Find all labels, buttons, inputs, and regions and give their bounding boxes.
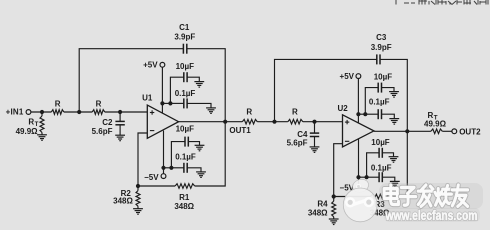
- svg-text:R: R: [96, 99, 102, 108]
- svg-text:10µF: 10µF: [371, 138, 390, 147]
- capacitor C2 5.6pF: [92, 112, 125, 136]
- svg-text:49.9Ω: 49.9Ω: [16, 127, 39, 136]
- decoupling capacitor 0.1uF lower U2: [367, 164, 395, 183]
- wire R to U2 +input: [303, 121, 343, 123]
- wire R to R: [64, 111, 92, 113]
- decoupling capacitor 10uF upper U2: [365, 73, 394, 115]
- wire R to U1 +input: [105, 111, 148, 113]
- svg-text:49.9Ω: 49.9Ω: [424, 120, 447, 129]
- -5V supply terminal U1: [144, 131, 166, 182]
- node feedback tap stage2: [272, 120, 276, 124]
- ground 10uF lower U1: [195, 145, 205, 151]
- capacitor C3 3.9pF: [371, 33, 392, 64]
- -5V supply terminal U2: [340, 139, 361, 192]
- node feedback tap stage1: [77, 110, 81, 114]
- decoupling capacitor 10uF lower U2: [367, 138, 394, 177]
- node at input junction: [40, 110, 44, 114]
- ground 10uF upper U1: [194, 82, 204, 88]
- svg-text:0.1µF: 0.1µF: [175, 89, 196, 98]
- svg-text:10µF: 10µF: [374, 73, 393, 82]
- termination resistor RT 49.9&#937;: [16, 112, 44, 136]
- svg-text:R4: R4: [317, 200, 328, 209]
- svg-text:U1: U1: [142, 93, 153, 102]
- svg-text:+IN1: +IN1: [6, 108, 24, 117]
- wire +IN1 to R: [31, 111, 51, 113]
- ground below C4: [310, 147, 320, 153]
- svg-text:U2: U2: [337, 104, 348, 113]
- decoupling capacitor 10uF lower U1: [171, 125, 199, 168]
- output terminal OUT2: [452, 127, 481, 136]
- op-amp U1: [142, 93, 179, 138]
- ground 10uF upper U2: [389, 92, 399, 98]
- node V- decoupling U2: [356, 175, 368, 179]
- clipped caption text top right: [396, 0, 490, 5]
- node OUT1: [223, 120, 251, 136]
- decoupling capacitor 10uF upper U1: [170, 62, 199, 103]
- resistor R (first): [51, 99, 64, 114]
- wire C1 to OUT1 rail: [187, 49, 225, 122]
- wire OUT1 rail to feedback R1: [195, 122, 226, 186]
- svg-text:R: R: [292, 107, 298, 116]
- svg-text:C2: C2: [102, 118, 113, 127]
- ground below RT: [37, 135, 47, 141]
- svg-text:348Ω: 348Ω: [308, 209, 328, 218]
- wire OUT2 rail to feedback R3: [390, 131, 407, 196]
- svg-text:0.1µF: 0.1µF: [175, 152, 196, 161]
- wire R to R stage2: [257, 121, 288, 123]
- output resistor RT 49.9&#937;: [424, 111, 452, 134]
- node C4 tap: [312, 120, 316, 124]
- decoupling capacitor 0.1uF upper U2: [365, 97, 394, 119]
- feedback resistor R3 348&#937;: [334, 194, 390, 217]
- wire feedback riser stage1: [79, 49, 183, 112]
- svg-text:348Ω: 348Ω: [174, 202, 194, 211]
- capacitor C1 3.9pF: [174, 23, 195, 54]
- wire U2 output to OUT2: [374, 130, 431, 132]
- ground below R4: [329, 219, 339, 225]
- svg-text:www.elecfans.com: www.elecfans.com: [385, 208, 478, 223]
- svg-text:OUT2: OUT2: [459, 127, 481, 136]
- ground below R2: [133, 209, 143, 215]
- svg-text:10µF: 10µF: [176, 125, 195, 134]
- node V+ decoupling U2: [356, 112, 367, 116]
- svg-text:5.6pF: 5.6pF: [287, 138, 308, 147]
- capacitor C4 5.6pF: [287, 122, 320, 148]
- svg-text:C1: C1: [179, 23, 190, 32]
- watermark: [343, 177, 483, 222]
- wire node to U2 -input: [334, 144, 343, 197]
- svg-text:0.1µF: 0.1µF: [371, 164, 392, 173]
- svg-text:5.6pF: 5.6pF: [92, 127, 113, 136]
- wire node to U1 -input: [138, 133, 147, 186]
- svg-text:10µF: 10µF: [176, 62, 195, 71]
- node C2 tap: [118, 110, 122, 114]
- svg-text:3.9pF: 3.9pF: [371, 43, 392, 52]
- node feedback divider stage1: [136, 184, 140, 188]
- ground 0.1uF upper U1: [206, 108, 216, 114]
- node OUT2: [405, 129, 409, 133]
- +5V supply terminal U1: [143, 60, 165, 113]
- ground 10uF lower U2: [389, 157, 399, 163]
- svg-text:3.9pF: 3.9pF: [174, 32, 195, 41]
- svg-text:R: R: [428, 111, 434, 120]
- svg-text:−5V: −5V: [144, 173, 159, 182]
- ground 0.1uF upper U2: [389, 119, 399, 125]
- resistor R (second): [92, 99, 105, 114]
- op-amp U2: [337, 104, 373, 147]
- svg-text:R: R: [246, 107, 252, 116]
- ground below C2: [115, 135, 125, 141]
- input terminal +IN1: [6, 108, 31, 117]
- svg-text:C3: C3: [376, 33, 387, 42]
- ground 0.1uF lower U1: [196, 172, 206, 178]
- feedback resistor R1 348&#937;: [138, 184, 195, 211]
- node V- decoupling U1: [161, 166, 173, 170]
- gain resistor R2 348&#937;: [113, 186, 140, 209]
- ground 0.1uF lower U2: [390, 181, 400, 187]
- node feedback divider stage2: [332, 194, 336, 198]
- wire C3 to OUT2 rail: [380, 59, 407, 131]
- resistor R (fourth): [288, 107, 303, 124]
- svg-text:+5V: +5V: [143, 60, 158, 69]
- decoupling capacitor 0.1uF upper U1: [170, 89, 211, 108]
- svg-text:348Ω: 348Ω: [113, 197, 133, 206]
- svg-text:R: R: [55, 99, 61, 108]
- gain resistor R4 348&#937;: [308, 197, 336, 220]
- node V+ decoupling U1: [160, 101, 172, 105]
- wire U1 output to OUT1: [179, 121, 243, 123]
- wire feedback riser stage2: [275, 59, 377, 121]
- svg-text:R: R: [28, 117, 34, 126]
- svg-text:0.1µF: 0.1µF: [369, 97, 390, 106]
- decoupling capacitor 0.1uF lower U1: [171, 152, 201, 172]
- resistor R (third): [242, 107, 257, 124]
- svg-text:+5V: +5V: [340, 72, 355, 81]
- svg-text:OUT1: OUT1: [229, 126, 251, 135]
- +5V supply terminal U2: [340, 72, 361, 124]
